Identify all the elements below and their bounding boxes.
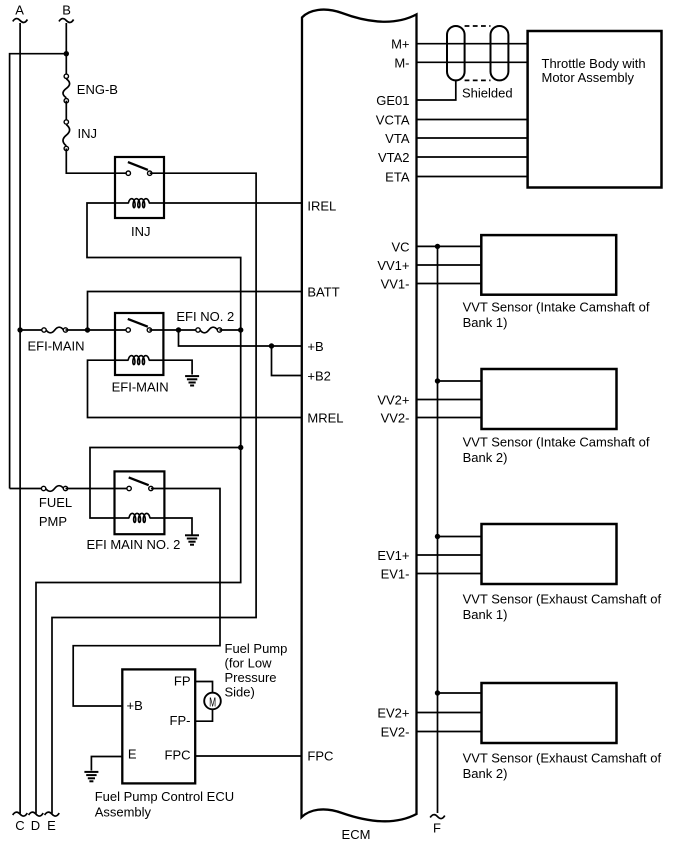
- svg-text:Fuel Pump Control ECU: Fuel Pump Control ECU: [95, 789, 234, 804]
- svg-text:VVT Sensor (Intake Camshaft of: VVT Sensor (Intake Camshaft of: [463, 435, 650, 450]
- node +B branch: [176, 327, 181, 332]
- wire +B: [179, 330, 303, 346]
- svg-text:B: B: [62, 3, 71, 18]
- wire VTA2: [417, 156, 528, 158]
- svg-text:EV1+: EV1+: [377, 548, 409, 563]
- svg-text:Throttle Body with: Throttle Body with: [542, 56, 646, 71]
- svg-text:INJ: INJ: [131, 224, 151, 239]
- svg-text:+B: +B: [307, 339, 323, 354]
- VVT sensor exhaust bank1 box: [482, 524, 617, 584]
- fuse INJ: [63, 120, 70, 151]
- shield capsule left: [447, 26, 465, 80]
- wire VV1-: [417, 283, 482, 285]
- wire rail A to fuse EFI-MAIN: [20, 329, 44, 331]
- wire EV1+: [417, 554, 482, 556]
- svg-text:EV2+: EV2+: [377, 706, 409, 721]
- wire VC to VVT exhaust bank1: [438, 536, 482, 538]
- svg-text:Pressure: Pressure: [225, 670, 277, 685]
- svg-text:+B: +B: [127, 698, 143, 713]
- wire from node B to fuel pump feed: [10, 54, 67, 489]
- wire relay EFI-MAIN coil to MREL: [88, 360, 303, 417]
- svg-text:FP: FP: [174, 674, 191, 689]
- wire relay INJ coil to EFI NO.2 fuse node: [36, 203, 241, 814]
- wire FP to motor: [195, 682, 212, 693]
- node EFI NO.2 output: [238, 327, 243, 332]
- svg-text:Shielded: Shielded: [462, 86, 513, 101]
- svg-text:E: E: [47, 818, 56, 833]
- svg-text:M-: M-: [394, 55, 409, 70]
- svg-text:VV1+: VV1+: [377, 258, 409, 273]
- wire E to ground: [91, 757, 122, 771]
- line break symbol A: [13, 19, 28, 23]
- svg-text:Bank 2): Bank 2): [463, 766, 508, 781]
- wire INJ fuse to relay INJ switch: [66, 149, 128, 174]
- svg-text:Bank 1): Bank 1): [463, 607, 508, 622]
- svg-text:FUEL: FUEL: [39, 495, 72, 510]
- node +B2 branch: [269, 343, 274, 348]
- battery rail B (top): [65, 23, 67, 74]
- relay INJ switch contacts: [126, 171, 130, 175]
- svg-text:ECM: ECM: [342, 827, 371, 842]
- wire node to relay EFI MAIN NO.2 coil: [90, 448, 241, 519]
- relay EFI MAIN NO.2 coil: [115, 517, 130, 519]
- node VC tap 3: [435, 534, 440, 539]
- relay EFI MAIN NO.2 box: [115, 471, 165, 534]
- svg-text:D: D: [31, 818, 40, 833]
- fuse ENG-B: [63, 74, 70, 103]
- wire EV2-: [417, 731, 482, 733]
- fuse EFI-MAIN: [42, 327, 68, 333]
- svg-text:Motor Assembly: Motor Assembly: [542, 70, 635, 85]
- wire relay EFI-MAIN coil to ground: [163, 360, 192, 374]
- node B junction: [64, 51, 69, 56]
- svg-text:VV2+: VV2+: [377, 393, 409, 408]
- svg-text:E: E: [128, 747, 137, 762]
- wire fuse FUEL PMP to relay EFI MAIN NO.2: [66, 488, 130, 490]
- relay EFI MAIN NO.2 switch contacts: [127, 486, 131, 490]
- relay INJ box: [115, 157, 164, 218]
- wire fuse EFI-MAIN to relay EFI-MAIN: [66, 329, 129, 331]
- wire M-: [417, 61, 528, 63]
- node BATT branch: [85, 327, 90, 332]
- wire shield drain to GE01: [417, 80, 456, 100]
- fuse EFI NO.2: [196, 327, 222, 333]
- line break symbol E: [45, 812, 60, 816]
- wire M+: [417, 43, 528, 45]
- svg-text:FPC: FPC: [165, 748, 191, 763]
- wire EV1-: [417, 573, 482, 575]
- motor M (fuel pump): [204, 693, 221, 710]
- svg-text:M+: M+: [391, 37, 409, 52]
- wire fuse EFI NO.2 to node: [220, 329, 241, 331]
- svg-text:EFI-MAIN: EFI-MAIN: [112, 380, 169, 395]
- wire +B2: [272, 346, 303, 376]
- svg-text:EFI NO. 2: EFI NO. 2: [176, 309, 234, 324]
- ground (fuel pump ECU): [84, 772, 98, 781]
- svg-text:Assembly: Assembly: [95, 805, 152, 820]
- svg-text:BATT: BATT: [307, 285, 339, 300]
- svg-text:C: C: [15, 818, 24, 833]
- wire between fuses: [65, 101, 67, 122]
- svg-text:M: M: [209, 694, 216, 709]
- VVT sensor intake bank1 box: [481, 235, 616, 295]
- svg-text:+B2: +B2: [307, 369, 331, 384]
- line break symbol D: [29, 812, 44, 816]
- ground (relay EFI-MAIN): [185, 376, 199, 385]
- svg-text:Bank 1): Bank 1): [463, 315, 508, 330]
- relay EFI MAIN NO.2 switch blade: [129, 477, 149, 485]
- node relay EFI MAIN NO.2 coil feed: [238, 445, 243, 450]
- svg-text:Fuel Pump: Fuel Pump: [225, 641, 288, 656]
- svg-text:EFI MAIN NO. 2: EFI MAIN NO. 2: [87, 537, 181, 552]
- relay EFI-MAIN box: [115, 313, 163, 375]
- svg-text:IREL: IREL: [307, 199, 336, 214]
- wire EV2+: [417, 712, 482, 714]
- svg-text:Bank 2): Bank 2): [463, 450, 508, 465]
- fuel pump control ECU box: [122, 669, 195, 783]
- svg-text:(for Low: (for Low: [225, 655, 273, 670]
- wire fuel pump feed to fuse FUEL PMP: [10, 488, 44, 490]
- wire VV1+: [417, 264, 482, 266]
- wire BATT feed: [88, 292, 303, 331]
- fuse FUEL PMP: [41, 486, 67, 492]
- line break symbol C: [13, 812, 28, 816]
- svg-text:MREL: MREL: [307, 411, 343, 426]
- svg-text:VTA2: VTA2: [378, 150, 410, 165]
- VVT sensor exhaust bank2 box: [482, 683, 617, 743]
- line break symbol F: [430, 815, 445, 819]
- wire relay EFI MAIN NO.2 coil to ground: [164, 518, 192, 535]
- wire FPC to ECM: [195, 755, 302, 757]
- svg-text:VVT Sensor (Exhaust Camshaft o: VVT Sensor (Exhaust Camshaft of: [463, 751, 662, 766]
- wire relay INJ switch output to rail E: [52, 173, 256, 813]
- relay INJ switch blade: [128, 162, 148, 170]
- sensor supply rail to F: [437, 246, 439, 813]
- shield dashed link top: [465, 25, 491, 27]
- svg-text:VVT Sensor (Intake Camshaft of: VVT Sensor (Intake Camshaft of: [463, 300, 650, 315]
- relay EFI-MAIN coil: [115, 359, 129, 361]
- shield capsule right: [491, 26, 509, 80]
- svg-text:VVT Sensor (Exhaust Camshaft o: VVT Sensor (Exhaust Camshaft of: [463, 592, 662, 607]
- svg-text:VCTA: VCTA: [376, 113, 410, 128]
- svg-text:VC: VC: [391, 239, 409, 254]
- wire relay EFI MAIN NO.2 switch out to fuel pump ECU +B: [73, 489, 220, 707]
- node VC tap 4: [435, 690, 440, 695]
- ECM body outline: [302, 10, 417, 822]
- node VC tap 1: [435, 244, 440, 249]
- wire VV2+: [417, 399, 482, 401]
- wire VV2-: [417, 417, 482, 419]
- relay EFI-MAIN switch contacts: [126, 328, 130, 332]
- svg-text:VV2-: VV2-: [381, 411, 410, 426]
- throttle body box: [528, 31, 662, 188]
- line break symbol B: [59, 19, 74, 23]
- svg-text:EV1-: EV1-: [381, 567, 410, 582]
- svg-text:FPC: FPC: [307, 749, 333, 764]
- svg-text:VTA: VTA: [385, 131, 410, 146]
- relay EFI-MAIN switch blade: [128, 319, 148, 327]
- svg-text:Side): Side): [225, 684, 255, 699]
- svg-text:EV2-: EV2-: [381, 725, 410, 740]
- ground (relay EFI MAIN NO.2): [185, 535, 199, 544]
- wire relay EFI-MAIN switch out to fuse EFI NO.2: [149, 329, 198, 331]
- wire VTA: [417, 137, 528, 139]
- svg-text:PMP: PMP: [39, 514, 67, 529]
- shield dashed link bottom: [465, 79, 491, 81]
- svg-text:F: F: [433, 821, 441, 836]
- wire VC to VVT exhaust bank2: [438, 692, 482, 694]
- wire relay INJ coil to IREL: [164, 202, 302, 204]
- wire VC to VVT bank2: [438, 380, 482, 382]
- svg-text:ETA: ETA: [385, 170, 410, 185]
- wire FP- to motor: [195, 709, 212, 721]
- wire VCTA: [417, 119, 528, 121]
- svg-text:ENG-B: ENG-B: [77, 82, 118, 97]
- node EFI-MAIN fuse tap on rail A: [17, 327, 22, 332]
- svg-text:VV1-: VV1-: [381, 277, 410, 292]
- battery rail A (top): [19, 23, 21, 814]
- svg-text:GE01: GE01: [376, 93, 409, 108]
- wire ETA: [417, 176, 528, 178]
- node VC tap 2: [435, 378, 440, 383]
- wire VC: [417, 245, 482, 247]
- svg-text:FP-: FP-: [170, 713, 191, 728]
- VVT sensor intake bank2 box: [482, 369, 617, 429]
- svg-text:EFI-MAIN: EFI-MAIN: [28, 339, 85, 354]
- svg-text:A: A: [15, 3, 24, 18]
- svg-text:INJ: INJ: [78, 126, 98, 141]
- relay INJ coil: [115, 202, 129, 204]
